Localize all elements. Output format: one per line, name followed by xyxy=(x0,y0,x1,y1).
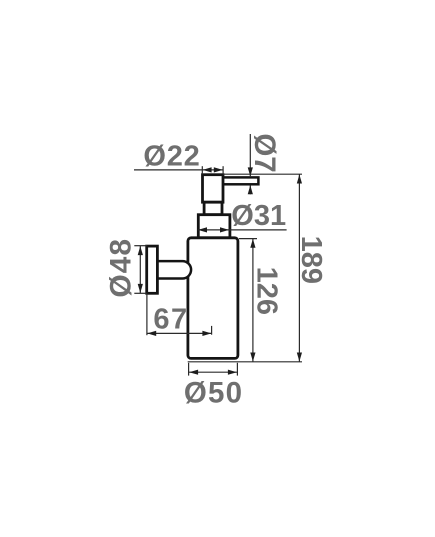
dim Ø7 xyxy=(249,134,251,176)
spout xyxy=(222,177,258,184)
svg-text:126: 126 xyxy=(251,267,283,315)
svg-text:Ø48: Ø48 xyxy=(104,238,137,298)
svg-text:Ø22: Ø22 xyxy=(143,141,200,173)
dim Ø50 xyxy=(188,363,190,376)
dim Ø48 xyxy=(134,245,147,247)
dim Ø31 xyxy=(198,229,287,231)
neck xyxy=(204,202,222,215)
arm xyxy=(155,261,191,278)
svg-text:Ø7: Ø7 xyxy=(248,133,281,172)
wall plate xyxy=(147,246,158,293)
dim Ø22 leader + line xyxy=(134,169,223,171)
bottom extension line xyxy=(188,361,302,363)
pump head xyxy=(203,175,224,203)
svg-text:189: 189 xyxy=(295,236,327,284)
dim 126 xyxy=(239,238,257,240)
dim 67 xyxy=(146,295,148,336)
dim 189 xyxy=(223,173,302,175)
svg-text:Ø50: Ø50 xyxy=(184,377,243,410)
svg-text:67: 67 xyxy=(153,304,188,336)
body xyxy=(188,238,238,359)
collar xyxy=(198,215,230,238)
svg-text:Ø31: Ø31 xyxy=(231,200,286,232)
